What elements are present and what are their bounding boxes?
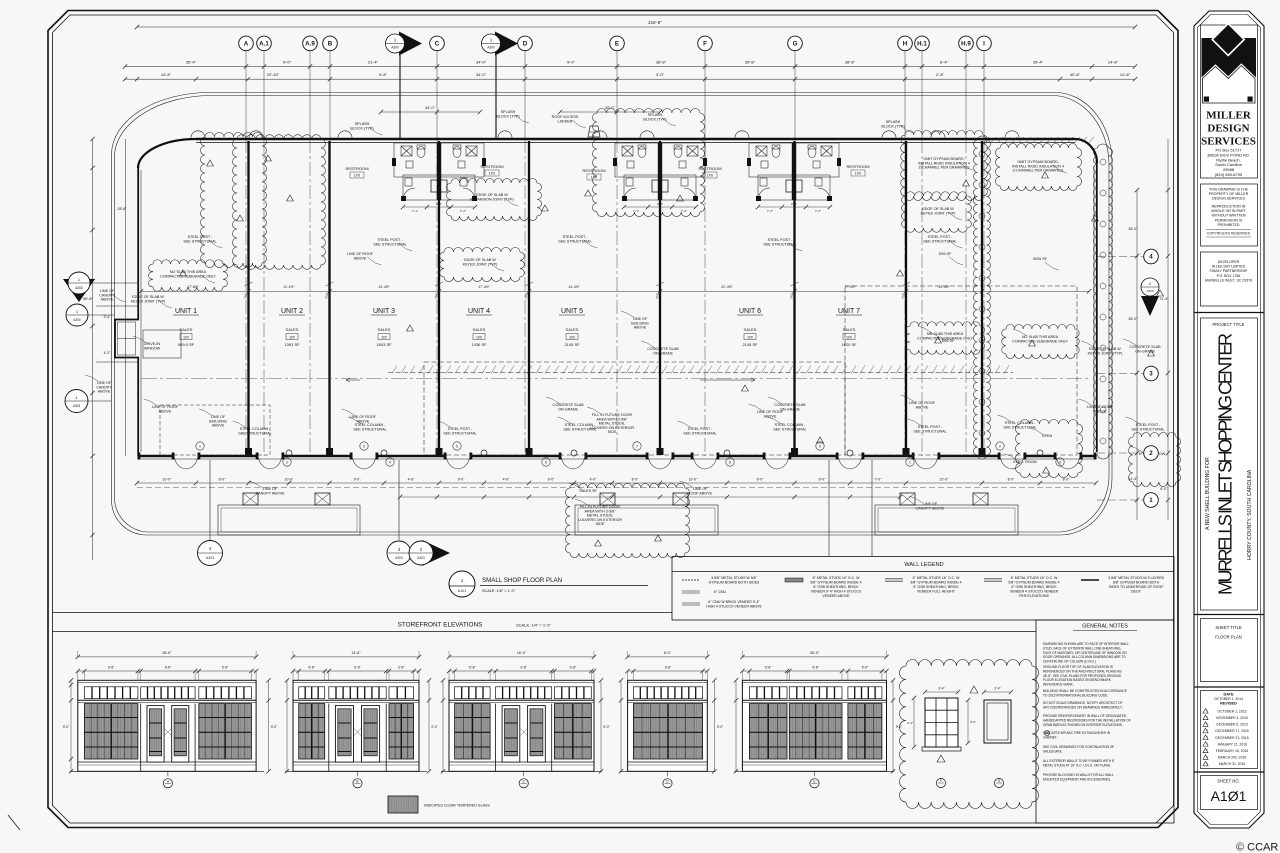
grid line G bbox=[794, 51, 796, 140]
svg-text:PERMISSION IS: PERMISSION IS bbox=[1215, 218, 1243, 222]
left tick 535 bbox=[90, 533, 94, 537]
svg-text:6" METAL STUDS 16" O.C. W: 6" METAL STUDS 16" O.C. W bbox=[913, 576, 961, 580]
splash block x=505 bbox=[498, 131, 512, 138]
top-right wall corner arc bbox=[1075, 139, 1097, 163]
svg-text:5/8" GYPSUM BOARD INSIDE 4: 5/8" GYPSUM BOARD INSIDE 4 bbox=[910, 581, 961, 585]
svg-text:5/8" GYPSUM BOARD INSIDE 4: 5/8" GYPSUM BOARD INSIDE 4 bbox=[1008, 581, 1059, 585]
column at wall base x=329.5 bbox=[326, 448, 333, 455]
left section marker with arrow bbox=[63, 279, 95, 302]
revision cloud 14 bbox=[1129, 433, 1181, 487]
svg-text:17'-4½": 17'-4½" bbox=[844, 285, 856, 289]
logo footing squares bbox=[1204, 97, 1209, 102]
svg-text:F: F bbox=[703, 41, 707, 48]
svg-text:ABOVE: ABOVE bbox=[1094, 409, 1107, 413]
svg-text:(843) 650-8795: (843) 650-8795 bbox=[1215, 172, 1243, 177]
wall cloud strip x=1103 bbox=[1094, 144, 1113, 459]
svg-text:8'-0": 8'-0" bbox=[219, 478, 227, 482]
grid line H.1 bbox=[921, 51, 923, 140]
column at wall base x=248.5 bbox=[245, 448, 252, 455]
svg-text:A300: A300 bbox=[391, 46, 399, 50]
svg-text:1436 SF: 1436 SF bbox=[471, 342, 487, 347]
row grid bubble 2 bbox=[1144, 446, 1159, 461]
entry roof outline 875 bbox=[875, 505, 1018, 535]
svg-text:14'-8": 14'-8" bbox=[161, 72, 172, 77]
delta triangle 410 bbox=[407, 325, 414, 331]
svg-text:Z-CHANNEL PER DRAWINGS: Z-CHANNEL PER DRAWINGS bbox=[1013, 169, 1064, 173]
svg-text:1: 1 bbox=[1149, 497, 1153, 504]
column at wall base x=982 bbox=[979, 448, 986, 455]
keynote circle x=546 bbox=[542, 458, 550, 466]
svg-text:SMALL SHOP FLOOR PLAN: SMALL SHOP FLOOR PLAN bbox=[482, 577, 562, 584]
svg-text:2: 2 bbox=[1149, 282, 1151, 286]
svg-text:KEYED JOINT (TYP): KEYED JOINT (TYP) bbox=[463, 262, 498, 266]
svg-text:7¾": 7¾" bbox=[656, 292, 660, 299]
right ticks 373 bbox=[1135, 371, 1139, 375]
svg-text:21'-4": 21'-4" bbox=[368, 60, 379, 65]
svg-text:34'-0": 34'-0" bbox=[476, 72, 487, 77]
right ticks 190 bbox=[1135, 188, 1139, 192]
svg-text:8'-0": 8'-0" bbox=[1008, 478, 1016, 482]
expansion joint line bbox=[388, 372, 1013, 374]
svg-text:6'-8": 6'-8" bbox=[165, 665, 171, 669]
svg-text:36'-0": 36'-0" bbox=[1128, 227, 1138, 231]
canopy roof outline inner bbox=[115, 96, 1110, 533]
revision cloud 5 bbox=[593, 109, 705, 217]
demising wall x=329.5 bbox=[328, 141, 330, 454]
delta triangle 268 bbox=[265, 155, 272, 161]
svg-text:SALES: SALES bbox=[180, 327, 193, 332]
svg-text:38'-8": 38'-8" bbox=[656, 60, 667, 65]
keynote circle x=1060 bbox=[1056, 458, 1064, 466]
double door x=352 bbox=[352, 457, 376, 470]
svg-text:BLOCK (TYP): BLOCK (TYP) bbox=[350, 126, 373, 130]
svg-text:11'-4½": 11'-4½" bbox=[283, 285, 295, 289]
svg-text:3'-0": 3'-0" bbox=[656, 72, 665, 77]
svg-text:10'-0": 10'-0" bbox=[940, 478, 949, 482]
copyright box bbox=[1201, 184, 1258, 246]
keynote circle x=820 bbox=[816, 442, 824, 450]
svg-text:3: 3 bbox=[1149, 371, 1153, 378]
svg-text:ABOVE: ABOVE bbox=[354, 256, 367, 260]
right section bubble bbox=[1141, 278, 1159, 296]
svg-text:A101: A101 bbox=[458, 589, 466, 593]
svg-text:9'-0": 9'-0" bbox=[548, 478, 556, 482]
extension line x=872 bbox=[871, 460, 873, 556]
svg-text:FLOOR ELEVATION BASED ON BENCH: FLOOR ELEVATION BASED ON BENCHMARK bbox=[1043, 678, 1112, 682]
svg-text:A300: A300 bbox=[73, 318, 81, 322]
svg-text:2: 2 bbox=[1149, 450, 1153, 457]
svg-text:DEVELOPER: DEVELOPER bbox=[1218, 260, 1240, 264]
svg-text:34'-0": 34'-0" bbox=[476, 60, 487, 65]
svg-text:KEYED JOINT (TYP): KEYED JOINT (TYP) bbox=[1088, 351, 1123, 355]
svg-text:8" OSB SHEATHING, BRICK: 8" OSB SHEATHING, BRICK bbox=[1011, 585, 1057, 589]
svg-text:DECK: DECK bbox=[1131, 590, 1141, 594]
svg-text:9'-0": 9'-0" bbox=[603, 725, 609, 729]
drive-in counter bbox=[143, 330, 181, 358]
svg-text:RESTROOM: RESTROOM bbox=[480, 164, 503, 169]
line of roof dashed left bbox=[160, 405, 270, 455]
pipe column x=384 bbox=[381, 450, 387, 456]
column base 315 bbox=[315, 493, 330, 505]
revision cloud 4 bbox=[440, 248, 525, 282]
elev C left vdim bbox=[442, 680, 444, 771]
svg-text:HANDICAPPED RESTROOMS FOR THE: HANDICAPPED RESTROOMS FOR THE INSTALLATI… bbox=[1043, 718, 1131, 722]
svg-text:© CCAR: © CCAR bbox=[1236, 842, 1278, 853]
double door x=561 bbox=[561, 457, 585, 470]
svg-text:F: F bbox=[940, 779, 942, 783]
grid line I bbox=[983, 51, 985, 140]
svg-text:1620 SF: 1620 SF bbox=[841, 342, 857, 347]
grid bubble D bbox=[518, 36, 533, 51]
svg-text:6" METAL STUDS 16" O.C. W: 6" METAL STUDS 16" O.C. W bbox=[813, 576, 861, 580]
svg-text:H.1: H.1 bbox=[917, 41, 927, 48]
svg-text:COMPACTED SUBGRADE ONLY: COMPACTED SUBGRADE ONLY bbox=[160, 274, 216, 278]
bottom storefront wall bbox=[138, 455, 1096, 457]
svg-text:GYPSUM BOARD BOTH SIDES: GYPSUM BOARD BOTH SIDES bbox=[709, 580, 760, 584]
svg-text:SALESGATE.: SALESGATE. bbox=[1043, 749, 1063, 753]
detail window 1 grid bbox=[935, 698, 937, 747]
svg-text:1: 1 bbox=[199, 444, 201, 448]
grid line H bbox=[904, 51, 906, 140]
svg-text:6'-8": 6'-8" bbox=[469, 665, 475, 669]
svg-text:SIDE: SIDE bbox=[596, 522, 605, 526]
svg-text:28'-8": 28'-8" bbox=[118, 207, 128, 211]
svg-text:LADDER: LADDER bbox=[558, 119, 573, 123]
wall tick 439 bbox=[435, 282, 443, 286]
svg-text:7'-1": 7'-1" bbox=[767, 209, 773, 213]
svg-text:ABOVE: ABOVE bbox=[916, 405, 929, 409]
svg-text:5/8" GYPSUM BOARD INSIDE 4: 5/8" GYPSUM BOARD INSIDE 4 bbox=[810, 581, 861, 585]
delta triangle 598 bbox=[595, 540, 602, 546]
svg-text:RESTROOM: RESTROOM bbox=[846, 164, 869, 169]
delta triangle 1046 bbox=[1043, 467, 1050, 473]
right section arrow down bbox=[1141, 296, 1159, 316]
elev B left vdim bbox=[286, 680, 288, 771]
column base 600 bbox=[600, 493, 615, 505]
keynote circle x=457 bbox=[453, 442, 461, 450]
grid line E bbox=[616, 51, 618, 140]
svg-text:KEYED JOINT (TYP): KEYED JOINT (TYP) bbox=[921, 211, 956, 215]
svg-text:7'-2": 7'-2" bbox=[681, 209, 687, 213]
svg-text:SALES: SALES bbox=[744, 327, 757, 332]
delta triangle 658 bbox=[655, 535, 662, 541]
delta triangle 290 bbox=[287, 195, 294, 201]
svg-text:SEE STRUCTURAL: SEE STRUCTURAL bbox=[238, 431, 271, 435]
keynote circle x=910 bbox=[906, 458, 914, 466]
svg-text:9026 SF: 9026 SF bbox=[1033, 257, 1048, 261]
svg-text:BLOCK (TYP): BLOCK (TYP) bbox=[496, 114, 519, 118]
svg-text:DIMENSIONS SHOWN ARE TO FACE O: DIMENSIONS SHOWN ARE TO FACE OF INTERIOR… bbox=[1043, 642, 1129, 646]
svg-text:A NEW SHELL BUILDING FOR: A NEW SHELL BUILDING FOR bbox=[1205, 457, 1211, 530]
divider sheet title bbox=[1194, 614, 1264, 616]
secondary dim string bbox=[400, 496, 900, 498]
svg-text:ALL EXTERIOR WALLS TO BE FRAME: ALL EXTERIOR WALLS TO BE FRAMED WITH 6" bbox=[1043, 759, 1115, 763]
elev D right vdim bbox=[713, 680, 715, 771]
wall tick 529 bbox=[525, 282, 533, 286]
svg-text:6'-8": 6'-8" bbox=[222, 665, 228, 669]
svg-text:H.9: H.9 bbox=[961, 41, 971, 48]
pipe column x=574 bbox=[571, 450, 577, 456]
delta triangle 1095 bbox=[1092, 215, 1099, 221]
svg-text:PROJECT TITLE: PROJECT TITLE bbox=[1213, 322, 1245, 327]
revision row 3 bbox=[1203, 722, 1208, 727]
detail label F bbox=[936, 778, 945, 787]
svg-text:14'-4½": 14'-4½" bbox=[378, 285, 390, 289]
splash block x=345 bbox=[338, 131, 352, 138]
svg-text:2145 SF: 2145 SF bbox=[564, 342, 580, 347]
svg-text:1XX: 1XX bbox=[489, 172, 496, 176]
stray pencil mark bottom-left bbox=[8, 815, 20, 830]
copyright underlines bbox=[1206, 236, 1251, 238]
svg-text:1XX: 1XX bbox=[707, 174, 714, 178]
entry roof outline 575 bbox=[575, 505, 718, 535]
delta triangle 1160 bbox=[1157, 290, 1164, 296]
legend entry 2 bbox=[785, 578, 803, 582]
svg-text:4'-0": 4'-0" bbox=[791, 202, 797, 206]
svg-text:9'-4": 9'-4" bbox=[104, 315, 112, 319]
splash block x=1012 bbox=[1005, 131, 1019, 138]
svg-text:PROHIBITED: PROHIBITED bbox=[1218, 223, 1240, 227]
keynote circle x=287 bbox=[283, 458, 291, 466]
svg-text:10X: 10X bbox=[183, 335, 190, 339]
concrete slab arrows bbox=[346, 378, 360, 382]
entry roof outline 218 bbox=[218, 505, 360, 535]
svg-text:4'-2": 4'-2" bbox=[104, 351, 112, 355]
left leader lines bbox=[96, 305, 138, 307]
lower dimension string bbox=[125, 78, 1135, 80]
grid line A.9 bbox=[309, 51, 311, 140]
svg-text:9'-0": 9'-0" bbox=[567, 60, 576, 65]
left canopy bubble bbox=[65, 390, 88, 413]
svg-text:14'-4½": 14'-4½" bbox=[938, 285, 950, 289]
section cut line bbox=[399, 55, 401, 139]
double door x=446 bbox=[446, 457, 470, 470]
grid line H.9 bbox=[965, 51, 967, 140]
svg-text:6'-8": 6'-8" bbox=[812, 665, 818, 669]
storefront dimension string bbox=[137, 482, 1096, 484]
svg-text:8: 8 bbox=[729, 460, 731, 464]
grid bubble E bbox=[610, 36, 625, 51]
column at wall base x=529 bbox=[526, 448, 533, 455]
svg-text:FLOOR PLAN: FLOOR PLAN bbox=[1215, 635, 1242, 640]
svg-text:ANY DISCREPANCIES ON DRAWINGS: ANY DISCREPANCIES ON DRAWINGS IMMEDIATEL… bbox=[1043, 705, 1123, 709]
svg-text:UNIT 6: UNIT 6 bbox=[739, 308, 761, 315]
concrete slab dashed outline bbox=[424, 362, 845, 455]
svg-text:38'-8": 38'-8" bbox=[162, 651, 172, 655]
svg-text:MARCH 242, 2016: MARCH 242, 2016 bbox=[1218, 756, 1247, 760]
svg-text:BLOCK (TYP): BLOCK (TYP) bbox=[643, 117, 666, 121]
svg-text:9: 9 bbox=[819, 444, 821, 448]
detail triangles bbox=[970, 686, 978, 693]
row grid bubble 4 bbox=[1144, 249, 1159, 264]
svg-text:9'-0": 9'-0" bbox=[717, 725, 723, 729]
svg-text:1XX: 1XX bbox=[354, 174, 361, 178]
grid line A bbox=[245, 51, 247, 140]
sub dimension 34ft bbox=[381, 111, 480, 113]
svg-text:4'-0": 4'-0" bbox=[970, 720, 976, 724]
svg-text:PROVIDE BLOCKING IN WALLS FOR: PROVIDE BLOCKING IN WALLS FOR ALL WALL bbox=[1043, 773, 1114, 777]
svg-text:DECEMBER 17, 2015: DECEMBER 17, 2015 bbox=[1215, 729, 1248, 733]
svg-text:7: 7 bbox=[636, 444, 638, 448]
keynote circle x=364 bbox=[360, 442, 368, 450]
pipe column x=727 bbox=[724, 450, 730, 456]
svg-text:10X: 10X bbox=[747, 335, 754, 339]
svg-text:B: B bbox=[356, 779, 358, 783]
revision cloud 8 bbox=[902, 192, 972, 233]
column at wall base x=906 bbox=[903, 448, 910, 455]
delta triangle 545 bbox=[542, 205, 549, 211]
svg-text:CANOPY ABOVE: CANOPY ABOVE bbox=[255, 491, 285, 495]
svg-text:BUILDING SHALL BE CONSTRUCTED: BUILDING SHALL BE CONSTRUCTED IN ACCORDA… bbox=[1043, 689, 1127, 693]
double door x=765 bbox=[765, 457, 789, 470]
line of roof above dashed right bbox=[845, 286, 1077, 455]
svg-text:34'-0": 34'-0" bbox=[425, 106, 435, 110]
revision row 1 bbox=[1203, 709, 1208, 714]
svg-text:MOUNTED EQUIPMENT AND ACCESSOR: MOUNTED EQUIPMENT AND ACCESSORIES. bbox=[1043, 777, 1111, 781]
svg-text:ROOF ABOVE: ROOF ABOVE bbox=[688, 491, 713, 495]
svg-text:THIS DRAWING IS THE: THIS DRAWING IS THE bbox=[1209, 188, 1249, 192]
svg-text:11'-4": 11'-4" bbox=[1129, 477, 1139, 481]
column base 973 bbox=[973, 493, 988, 505]
title block outer border bbox=[1194, 11, 1264, 828]
grid line C bbox=[436, 51, 438, 140]
svg-text:6'-8": 6'-8" bbox=[665, 665, 671, 669]
svg-text:ABOVE: ABOVE bbox=[357, 419, 370, 423]
svg-text:D95 SF: D95 SF bbox=[942, 339, 955, 343]
grid line D bbox=[524, 51, 526, 140]
svg-text:MARCH 31, 2016: MARCH 31, 2016 bbox=[1219, 762, 1246, 766]
revision row 7 bbox=[1203, 748, 1208, 753]
keynote circle x=730 bbox=[726, 458, 734, 466]
splash block x=742 bbox=[735, 131, 749, 138]
right ticks 453 bbox=[1135, 451, 1139, 455]
svg-text:8'-4": 8'-4" bbox=[940, 60, 949, 65]
svg-text:5: 5 bbox=[456, 444, 458, 448]
svg-text:7¾": 7¾" bbox=[435, 292, 439, 299]
svg-text:ELEC. ROOM: ELEC. ROOM bbox=[1013, 460, 1036, 464]
divider project title bbox=[1194, 312, 1264, 314]
svg-text:STUD, FACE OF EXTERIOR WALL OS: STUD, FACE OF EXTERIOR WALL OSB SHEATHIN… bbox=[1043, 646, 1121, 650]
svg-text:SEE STRUCTURAL: SEE STRUCTURAL bbox=[1131, 427, 1164, 431]
svg-text:CENTERLINE OF COLUMN (U.N.O.): CENTERLINE OF COLUMN (U.N.O.) bbox=[1043, 660, 1096, 664]
storefront elevation B bbox=[293, 680, 419, 771]
svg-text:3: 3 bbox=[1059, 460, 1061, 464]
fire extinguisher symbol bbox=[1044, 730, 1049, 735]
svg-text:35'-4": 35'-4" bbox=[1033, 60, 1044, 65]
svg-text:6: 6 bbox=[545, 460, 547, 464]
svg-text:REFERENCE MARK.: REFERENCE MARK. bbox=[1043, 683, 1074, 687]
logo box bbox=[1201, 25, 1258, 178]
grid bubble A.1 bbox=[257, 36, 272, 51]
splash block x=600 bbox=[593, 131, 607, 138]
svg-text:A303: A303 bbox=[73, 404, 81, 408]
column base 243 bbox=[243, 493, 258, 505]
svg-text:I: I bbox=[983, 41, 985, 48]
left bubble leaders bbox=[90, 282, 137, 284]
grid bubble B bbox=[323, 36, 338, 51]
svg-text:4: 4 bbox=[1149, 254, 1153, 261]
svg-text:SEE STRUCTURAL: SEE STRUCTURAL bbox=[683, 431, 716, 435]
svg-text:ON-GRADE: ON-GRADE bbox=[780, 407, 800, 411]
row grid bubble 3 bbox=[1144, 366, 1159, 381]
storefront elevations band bbox=[53, 612, 673, 614]
svg-text:G: G bbox=[793, 41, 798, 48]
svg-text:4: 4 bbox=[389, 460, 391, 464]
svg-text:7¾": 7¾" bbox=[902, 292, 906, 299]
svg-text:GRAB BARS AS SHOWN ON INTERIOR: GRAB BARS AS SHOWN ON INTERIOR ELEVATION… bbox=[1043, 723, 1123, 727]
svg-text:6'-8": 6'-8" bbox=[765, 665, 771, 669]
svg-text:2: 2 bbox=[286, 460, 288, 464]
svg-text:Z-CHANNEL PER DRAWINGS: Z-CHANNEL PER DRAWINGS bbox=[919, 166, 970, 170]
grid line A.1 bbox=[263, 51, 265, 140]
svg-text:A1Ø1: A1Ø1 bbox=[1211, 788, 1247, 804]
svg-text:P.O. BOX 1786: P.O. BOX 1786 bbox=[1217, 274, 1241, 278]
svg-text:HORRY COUNTY, SOUTH CAROLINA: HORRY COUNTY, SOUTH CAROLINA bbox=[1247, 469, 1253, 560]
double door x=1056 bbox=[1056, 457, 1080, 470]
svg-text:1XX: 1XX bbox=[855, 172, 862, 176]
mid-plan dimension line bbox=[141, 290, 1089, 292]
delta triangle 820 bbox=[817, 437, 824, 443]
svg-text:16'-0": 16'-0" bbox=[517, 651, 527, 655]
svg-text:4'-4": 4'-4" bbox=[907, 721, 913, 725]
expansion joint hatch bbox=[392, 366, 1009, 374]
right dim line 2 bbox=[1167, 139, 1169, 520]
svg-text:A300: A300 bbox=[1146, 289, 1153, 293]
svg-text:9'-0": 9'-0" bbox=[63, 725, 69, 729]
svg-text:D: D bbox=[523, 41, 528, 48]
svg-text:10X: 10X bbox=[569, 335, 576, 339]
demising wall x=794.5 bbox=[793, 141, 795, 454]
svg-text:MURRELLS INLET, SC 29576: MURRELLS INLET, SC 29576 bbox=[1205, 278, 1252, 282]
grid bubble F bbox=[698, 36, 713, 51]
restroom cluster units 3-4 bbox=[394, 143, 484, 200]
svg-text:10'-0": 10'-0" bbox=[163, 478, 172, 482]
delta triangle 183 bbox=[180, 270, 187, 276]
demising wall x=529 bbox=[528, 141, 530, 454]
svg-text:2'-4": 2'-4" bbox=[994, 687, 1000, 691]
svg-text:6'-8": 6'-8" bbox=[354, 665, 360, 669]
svg-text:8'-0": 8'-0" bbox=[1063, 478, 1071, 482]
svg-text:1: 1 bbox=[909, 460, 911, 464]
svg-text:DATE: DATE bbox=[1223, 693, 1234, 697]
svg-text:36'-0": 36'-0" bbox=[810, 651, 820, 655]
extension line x=829 bbox=[828, 460, 830, 556]
svg-text:6" CMU W BRICK VENEER 9'-4": 6" CMU W BRICK VENEER 9'-4" bbox=[708, 600, 760, 604]
svg-text:KEYED JOINT (TYP): KEYED JOINT (TYP) bbox=[131, 299, 166, 303]
left dim line outer bbox=[92, 139, 94, 560]
legend entry 1 bbox=[682, 579, 700, 581]
svg-text:9'-0": 9'-0" bbox=[458, 478, 466, 482]
double door x=838 bbox=[838, 457, 862, 470]
top exterior wall bbox=[196, 138, 1075, 141]
svg-text:969.0 SF: 969.0 SF bbox=[178, 342, 195, 347]
top wall inner face bbox=[196, 142, 1075, 144]
svg-text:JANUARY 21, 2016: JANUARY 21, 2016 bbox=[1217, 742, 1247, 746]
svg-text:MILLER: MILLER bbox=[1206, 110, 1252, 122]
section marker at x=389 bbox=[399, 32, 422, 56]
window detail cloud bbox=[900, 660, 1039, 809]
restroom cluster unit 5 bbox=[615, 143, 705, 200]
pipe column x=289 bbox=[286, 450, 292, 456]
svg-text:E: E bbox=[615, 41, 619, 48]
svg-text:GENERAL NOTES: GENERAL NOTES bbox=[1082, 624, 1128, 630]
svg-text:DO NOT SCALE DRAWINGS. NOTIFY: DO NOT SCALE DRAWINGS. NOTIFY ARCHITECT … bbox=[1043, 701, 1123, 705]
grid bubble C bbox=[430, 36, 445, 51]
detail label G bbox=[994, 778, 1003, 787]
wall tick 906 bbox=[902, 282, 910, 286]
svg-text:STOREFRONT ELEVATIONS: STOREFRONT ELEVATIONS bbox=[398, 622, 483, 629]
splash block x=938 bbox=[931, 131, 945, 138]
